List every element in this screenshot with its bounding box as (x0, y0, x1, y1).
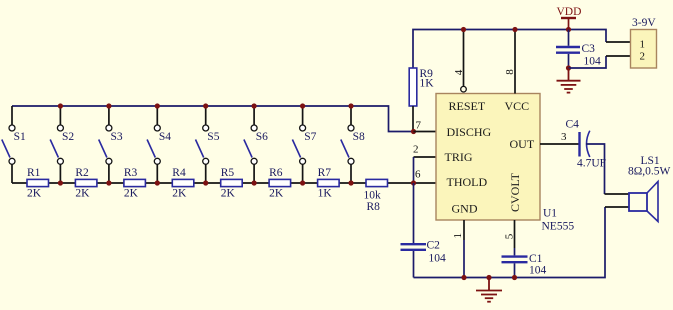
svg-text:2K: 2K (75, 188, 90, 200)
capacitor C1 (502, 253, 547, 277)
resistor R4 (172, 167, 194, 200)
svg-text:1: 1 (452, 233, 464, 239)
svg-text:R8: R8 (367, 201, 381, 213)
wire pin8 VCC (514, 30, 516, 94)
svg-text:S8: S8 (353, 131, 365, 143)
wire VDD to C3 (568, 30, 570, 46)
svg-text:R5: R5 (221, 167, 235, 179)
svg-text:R6: R6 (269, 167, 283, 179)
resistor R6 (269, 167, 291, 200)
svg-text:OUT: OUT (510, 137, 535, 151)
svg-text:S6: S6 (256, 131, 268, 143)
wire THOLD node down to C2 (413, 183, 415, 244)
wire C3 to ground (568, 54, 570, 68)
wire speaker top pin (605, 193, 630, 195)
svg-text:3-9V: 3-9V (632, 17, 656, 29)
node VDD junction (566, 27, 571, 32)
wire S2 column stubs (59, 106, 61, 183)
switch S3 (99, 125, 123, 164)
svg-text:2K: 2K (172, 188, 187, 200)
svg-text:2K: 2K (269, 188, 284, 200)
svg-text:DISCHG: DISCHG (447, 125, 492, 139)
wire GND pin1 (463, 220, 465, 240)
resistor R5 (221, 167, 243, 200)
svg-text:S7: S7 (304, 131, 316, 143)
resistor R3 (124, 167, 145, 200)
svg-text:U1: U1 (543, 208, 557, 220)
svg-text:THOLD: THOLD (447, 175, 488, 189)
switch S4 (147, 125, 171, 164)
switch S5 (196, 125, 220, 164)
svg-text:R7: R7 (318, 167, 332, 179)
svg-text:7: 7 (416, 120, 422, 132)
wire pin5 to C1 (514, 248, 516, 255)
switch S1 (2, 125, 26, 164)
wire C3 node to connector pin2 (569, 56, 607, 68)
svg-text:2: 2 (640, 51, 646, 63)
node pin8 junction (512, 27, 517, 32)
wire CVOLT pin5 (514, 220, 516, 248)
wire bottom resistor chain (12, 182, 436, 184)
svg-text:R2: R2 (75, 167, 89, 179)
op-amp U1 NE555 body (436, 94, 540, 221)
svg-text:104: 104 (529, 265, 547, 277)
pin 4 bubble (461, 86, 467, 92)
svg-text:2K: 2K (27, 188, 42, 200)
ground below C3 (557, 68, 581, 93)
wire OUT pin to C4 (540, 143, 579, 145)
resistor R9 (409, 68, 434, 106)
wire connector pin2 lead (606, 55, 631, 57)
svg-text:104: 104 (584, 56, 602, 68)
capacitor C3 (556, 43, 601, 68)
svg-text:1K: 1K (318, 188, 333, 200)
resistor R8 (364, 179, 388, 213)
svg-text:S5: S5 (207, 131, 219, 143)
svg-text:6: 6 (415, 169, 421, 181)
wire C1 to rail (514, 263, 516, 277)
svg-text:C2: C2 (427, 240, 441, 252)
wire R9 bottom pin (412, 106, 414, 132)
wire C2 to bottom rail (413, 251, 415, 278)
svg-text:8: 8 (504, 69, 516, 75)
svg-text:4.7UF: 4.7UF (577, 158, 606, 170)
svg-text:3: 3 (561, 131, 567, 143)
svg-text:8Ω,0.5W: 8Ω,0.5W (628, 166, 671, 178)
node pin4 junction (461, 27, 466, 32)
svg-text:NE555: NE555 (542, 221, 575, 233)
svg-text:5: 5 (503, 233, 515, 239)
node GND rail junction (461, 275, 466, 280)
wire S5 column stubs (205, 106, 207, 183)
svg-text:RESET: RESET (449, 99, 486, 113)
wire speaker bottom pin (605, 206, 629, 208)
switch S7 (292, 125, 316, 164)
svg-text:VDD: VDD (557, 6, 582, 18)
resistor R7 (318, 167, 340, 200)
svg-text:S1: S1 (14, 131, 26, 143)
capacitor C2 (401, 240, 447, 265)
node ground rail junction (486, 275, 491, 280)
speaker LS1 (628, 155, 671, 222)
wire TRIG to THOLD node (413, 157, 415, 183)
svg-text:C4: C4 (566, 119, 580, 131)
svg-text:CVOLT: CVOLT (508, 172, 522, 212)
svg-text:C3: C3 (582, 43, 596, 55)
svg-text:S2: S2 (62, 131, 74, 143)
svg-text:2K: 2K (124, 188, 139, 200)
wire S3 column stubs (108, 106, 110, 183)
node C1 rail junction (512, 275, 517, 280)
svg-text:104: 104 (429, 253, 447, 265)
wire GND to rail (463, 240, 465, 278)
svg-text:S4: S4 (159, 131, 171, 143)
wire DISCHG pin (414, 131, 437, 133)
capacitor C4 (566, 119, 607, 170)
svg-text:1: 1 (640, 39, 646, 51)
svg-text:2K: 2K (221, 188, 236, 200)
wire TRIG pin (414, 156, 437, 158)
node DISCHG junction (411, 129, 416, 134)
svg-text:R3: R3 (124, 167, 138, 179)
wire top bus (12, 106, 414, 132)
wire S8 column stubs (350, 106, 352, 183)
svg-text:R4: R4 (172, 167, 186, 179)
wire bottom rail (414, 207, 606, 278)
wire pin4 RESET (463, 30, 465, 87)
switch S6 (244, 125, 268, 164)
wire S1 column stubs (11, 106, 13, 183)
resistor R1 (27, 167, 49, 200)
svg-text:R1: R1 (27, 167, 41, 179)
switch S8 (341, 125, 365, 164)
wire S6 column stubs (253, 106, 255, 183)
resistor R2 (75, 167, 97, 200)
svg-text:2: 2 (413, 144, 419, 156)
wire R9 top to VDD rail (413, 30, 606, 69)
connector J 3-9V (631, 17, 657, 68)
svg-text:10k: 10k (364, 190, 382, 202)
junction dots top bus (58, 103, 354, 108)
svg-text:1K: 1K (420, 78, 435, 90)
svg-text:GND: GND (452, 202, 478, 216)
wire S7 column stubs (302, 106, 304, 183)
svg-text:C1: C1 (529, 253, 543, 265)
switch S2 (50, 125, 74, 164)
wire S4 column stubs (156, 106, 158, 183)
junction dots bottom chain (58, 180, 354, 185)
svg-text:4: 4 (453, 69, 465, 75)
node THOLD junction (411, 180, 416, 185)
wire C4 to speaker top (586, 144, 605, 194)
power VDD symbol (557, 6, 582, 30)
svg-text:S3: S3 (111, 131, 123, 143)
svg-text:TRIG: TRIG (445, 150, 473, 164)
node C3 bottom junction (566, 65, 571, 70)
wire connector pin1 lead (606, 41, 631, 43)
svg-text:VCC: VCC (505, 99, 530, 113)
ground bottom center (476, 278, 502, 302)
